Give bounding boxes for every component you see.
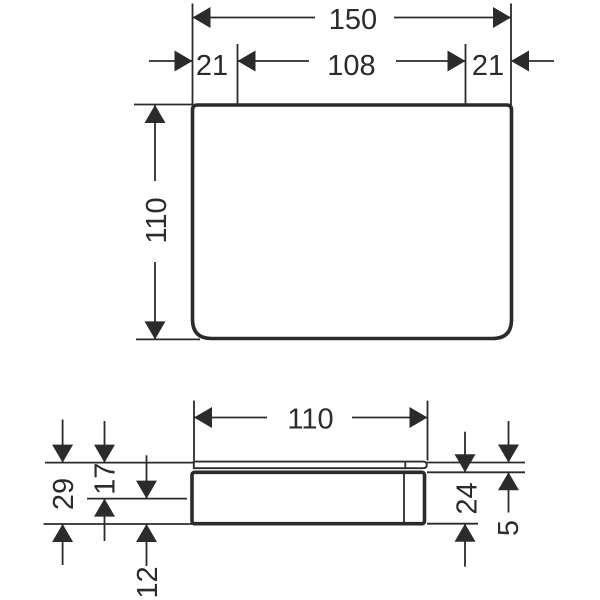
extension line right edge (x=511) <box>510 4 512 106</box>
svg-text:12: 12 <box>132 566 164 598</box>
ext line y=523.7 right <box>427 523 478 525</box>
extension line top-left horizontal <box>134 104 193 106</box>
dim 108 line segments <box>238 60 466 62</box>
svg-text:21: 21 <box>196 50 228 82</box>
dim 12 leader top <box>146 455 148 498</box>
svg-text:108: 108 <box>327 50 375 82</box>
arrow 5 bottom <box>498 472 519 490</box>
dim 5 leader top <box>508 421 510 463</box>
arrow 17 top <box>94 445 115 463</box>
arrow 108 right <box>448 51 466 72</box>
dim 12 leader bottom <box>146 524 148 566</box>
ext line y=472.3 right <box>427 471 525 473</box>
svg-text:21: 21 <box>472 50 504 82</box>
svg-text:24: 24 <box>452 482 484 514</box>
top view shelf outline <box>193 105 512 339</box>
arrow 21-right outside <box>511 51 529 72</box>
arrow 24 bottom <box>455 524 476 542</box>
arrow 12 top <box>136 481 157 499</box>
dim 110 side line segments <box>194 417 428 419</box>
svg-text:29: 29 <box>48 478 80 510</box>
frame inner vertical line <box>403 472 405 523</box>
arrow 21-left outside <box>175 51 193 72</box>
ext line y=462.6 left <box>45 462 193 464</box>
ext line y=462.5 right <box>427 462 525 464</box>
dim 150 line segments <box>193 17 512 19</box>
dim 24 leader bottom <box>464 524 466 567</box>
arrow 150 right <box>493 7 511 28</box>
svg-text:150: 150 <box>329 4 377 36</box>
arrow 108 left <box>238 51 256 72</box>
ext line 110 left (side view) <box>193 401 195 461</box>
svg-text:17: 17 <box>90 463 122 495</box>
arrow 17 bottom <box>94 499 115 517</box>
dim 17 leader bottom <box>104 499 106 541</box>
arrow 29 top <box>52 445 73 463</box>
ext line y=524 left <box>44 523 193 525</box>
arrow 150 left <box>193 7 211 28</box>
dim 29 leader bottom <box>62 524 64 565</box>
arrow 29 bottom <box>52 524 73 542</box>
dim 5 leader bottom <box>508 472 510 512</box>
dim 21 left leader <box>149 60 193 62</box>
extension line left edge (x=192.5) <box>192 4 194 106</box>
dim 17 leader top <box>104 421 106 463</box>
svg-text:5: 5 <box>493 520 525 536</box>
dim 21 right leader <box>511 60 554 62</box>
arrow 5 top <box>498 445 519 463</box>
ext line y=498.6 left <box>87 498 187 500</box>
arrow 12 bottom <box>136 524 157 542</box>
extension line x=465.5 <box>465 44 467 105</box>
arrow 24 top <box>455 454 476 472</box>
side view glass plate <box>194 462 427 469</box>
dim 29 leader top <box>62 420 64 463</box>
arrow 110 side right <box>410 407 428 428</box>
arrow 110 side left <box>194 407 212 428</box>
arrow 110 bottom <box>145 321 166 339</box>
arrow 110 top <box>145 105 166 123</box>
extension line bottom-left horizontal <box>136 338 200 340</box>
extension line x=237.5 <box>237 44 239 105</box>
svg-text:110: 110 <box>287 404 333 436</box>
svg-text:110: 110 <box>141 197 173 243</box>
dim 110 vertical line segments <box>154 105 156 339</box>
ext line 110 right (side view) <box>427 401 429 461</box>
dim 24 leader top <box>464 432 466 473</box>
plate inner tick <box>404 462 406 469</box>
side view frame body <box>192 472 425 523</box>
